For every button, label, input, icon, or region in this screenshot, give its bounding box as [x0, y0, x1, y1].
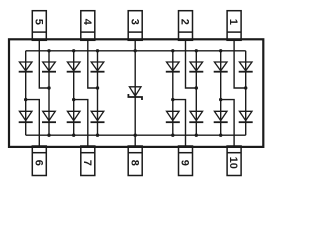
node: top rail junction x=220.7 [219, 49, 222, 52]
svg-text:6: 6 [32, 160, 44, 166]
pin 5 (top) [32, 11, 46, 41]
wire: column 7 vertical [220, 51, 222, 135]
node: top rail junction x=97.5 [96, 49, 99, 52]
node: bottom rail junction x=196.3 [195, 134, 198, 137]
node: top rail junction x=172.8 [171, 49, 174, 52]
pin 6 (bottom) [32, 146, 46, 176]
node: bottom rail junction x=97.5 [96, 134, 99, 137]
svg-text:3: 3 [128, 19, 140, 25]
node: pin 4 column junction [96, 86, 99, 89]
pin 2 (top) [179, 11, 193, 41]
diode D12 (lower, col 4) [91, 111, 105, 122]
node: pin 9 column junction [171, 98, 174, 101]
node: pin 5 column junction [47, 86, 50, 89]
diode D10 (lower, col 2) [42, 111, 56, 122]
node: pin 7 column junction [72, 98, 75, 101]
svg-text:7: 7 [81, 160, 93, 166]
svg-text:5: 5 [32, 19, 44, 25]
wire: pin 7 to column node [74, 100, 88, 147]
diode D2 (upper, col 2) [42, 62, 56, 72]
node: bottom rail junction x=49.0 [47, 134, 50, 137]
node: pin 1 column junction [244, 86, 247, 89]
node: pin 10 column junction [219, 98, 222, 101]
node: bottom rail junction x=172.8 [171, 134, 174, 137]
node: top rail junction x=196.3 [195, 49, 198, 52]
pin 9 (bottom) [179, 146, 193, 176]
wire: column 1 vertical [25, 51, 27, 135]
pin 10 (bottom) [227, 146, 241, 176]
node: pin8 bottom rail junction [134, 134, 137, 137]
wire: pin 1 to column node [234, 40, 246, 88]
node: pin3 top rail junction [134, 49, 137, 52]
wire: pin 9 to column node [173, 100, 186, 147]
diode D13 (lower, col 5) [166, 111, 180, 122]
wire: column 6 vertical [195, 51, 197, 135]
diode D9 (lower, col 1) [19, 111, 33, 122]
wire: pin 5 to column node [39, 40, 49, 88]
pin 8 (bottom) [128, 146, 142, 176]
wire: column 5 vertical [172, 51, 174, 135]
svg-text:8: 8 [128, 160, 140, 166]
wire: column 4 vertical [97, 51, 99, 135]
pin 1 (top) [227, 11, 241, 41]
svg-text:1: 1 [227, 19, 239, 25]
svg-text:2: 2 [179, 19, 191, 25]
wire: column 2 vertical [48, 51, 50, 135]
wire: pin 3 to pin 8 through TVS zener [134, 40, 136, 147]
diode D4 (upper, col 4) [91, 62, 105, 72]
wire: pin 4 to column node [88, 40, 98, 88]
wire: column 3 vertical [73, 51, 75, 135]
wire: pin 10 to column node [221, 100, 234, 147]
IC body outline [9, 39, 263, 147]
node: top rail junction x=49.0 [47, 49, 50, 52]
diode D11 (lower, col 3) [67, 111, 81, 122]
diode D6 (upper, col 6) [189, 62, 203, 72]
node: bottom rail junction x=220.7 [219, 134, 222, 137]
svg-text:4: 4 [81, 19, 93, 26]
diode D8 (upper, col 8) [239, 62, 253, 72]
pin 7 (bottom) [81, 146, 95, 176]
bottom cathode rail (pin 8 net) [26, 134, 246, 136]
wire: pin 6 to column node [26, 100, 40, 147]
diode D15 (lower, col 7) [214, 111, 228, 122]
wire: pin 2 to column node [186, 40, 197, 88]
zener TVS Z1 [128, 87, 142, 100]
diode D16 (lower, col 8) [239, 111, 253, 122]
node: top rail junction x=73.7 [72, 49, 75, 52]
diode D3 (upper, col 3) [67, 62, 81, 72]
diode D1 (upper, col 1) [19, 62, 33, 72]
diode D14 (lower, col 6) [189, 111, 203, 122]
diode D5 (upper, col 5) [166, 62, 180, 72]
pin 3 (top) [128, 11, 142, 41]
wire: column 8 vertical [245, 51, 247, 135]
node: pin 2 column junction [195, 86, 198, 89]
top anode rail (pin 3 net) [26, 50, 246, 52]
svg-text:10: 10 [227, 157, 239, 169]
svg-text:9: 9 [179, 160, 191, 166]
pin 4 (top) [81, 11, 95, 41]
diode D7 (upper, col 7) [214, 62, 228, 72]
node: pin 6 column junction [24, 98, 27, 101]
node: bottom rail junction x=73.7 [72, 134, 75, 137]
